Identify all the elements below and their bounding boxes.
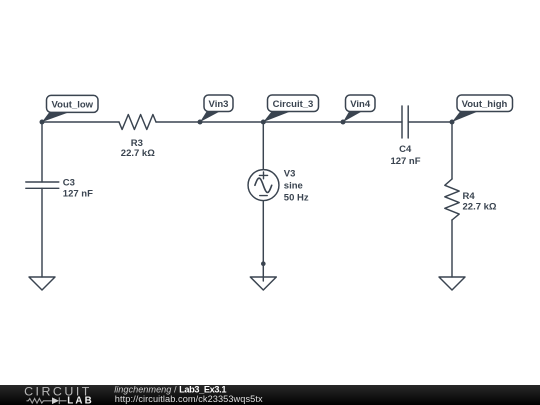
wire C3 to left ground	[41, 188, 43, 277]
capacitor C4	[402, 106, 408, 138]
V3 minus sign	[260, 195, 267, 197]
capacitor C3	[26, 182, 59, 188]
wire R3 to C4 (through Vin3, Circuit_3, Vin4 nodes)	[156, 121, 402, 123]
svg-text:22.7 kΩ: 22.7 kΩ	[121, 148, 155, 159]
svg-text:127 nF: 127 nF	[63, 189, 93, 200]
voltage source V3	[248, 170, 279, 201]
CircuitLab logo: resistor zigzag + diode row	[27, 397, 67, 404]
node label box Circuit_3	[268, 95, 319, 112]
node Vout_low (junction dot)	[40, 120, 45, 125]
svg-text:http://circuitlab.com/ck23353w: http://circuitlab.com/ck23353wqs5tx	[115, 394, 263, 404]
svg-text:C3: C3	[63, 177, 75, 188]
wire V3 to middle ground	[262, 201, 264, 281]
V3 sine wave	[255, 178, 272, 192]
wire Circuit_3 node down to V3	[262, 122, 264, 170]
junction dot above middle ground	[261, 261, 266, 266]
label tail Vin3	[200, 112, 220, 122]
footer bar	[0, 385, 540, 405]
svg-text:sine: sine	[284, 181, 303, 192]
resistor R3	[119, 115, 156, 130]
svg-text:22.7 kΩ: 22.7 kΩ	[463, 201, 497, 212]
label tail Vin4	[343, 112, 362, 122]
label tail Vout_high	[452, 112, 478, 122]
node label box Vin3	[204, 95, 233, 112]
svg-text:Vout_low: Vout_low	[52, 100, 94, 111]
wire top left (Vout_low node to R3)	[42, 121, 119, 123]
wire Vout_high node down to R4	[451, 122, 453, 179]
ground (left)	[29, 277, 55, 290]
wire R4 to right ground	[451, 220, 453, 277]
svg-text:Vin4: Vin4	[350, 99, 371, 110]
label tail Vout_low	[42, 113, 68, 122]
node label box Vout_high	[457, 95, 513, 112]
svg-text:50 Hz: 50 Hz	[284, 192, 309, 203]
node label box Vout_low	[47, 95, 99, 112]
node Vout_high (junction dot)	[450, 120, 455, 125]
svg-text:Vout_high: Vout_high	[462, 99, 508, 110]
node Vin3 (junction dot)	[198, 120, 203, 125]
resistor R4	[445, 179, 459, 220]
ground (middle)	[250, 277, 276, 290]
svg-text:V3: V3	[284, 169, 296, 180]
wire C4 to Vout_high node	[408, 121, 452, 123]
svg-text:Circuit_3: Circuit_3	[273, 99, 314, 110]
CircuitLab logo: diode triangle	[52, 397, 59, 404]
node label box Vin4	[346, 95, 376, 112]
node Circuit_3 (junction dot)	[261, 120, 266, 125]
node Vin4 (junction dot)	[341, 120, 346, 125]
V3 plus sign	[259, 172, 267, 179]
svg-text:R4: R4	[463, 191, 476, 202]
svg-text:LAB: LAB	[67, 396, 94, 405]
svg-text:Vin3: Vin3	[209, 99, 229, 110]
label tail Circuit_3	[263, 112, 290, 122]
svg-text:C4: C4	[399, 144, 412, 155]
wire left vertical (node to C3)	[41, 122, 43, 182]
svg-text:127 nF: 127 nF	[390, 156, 420, 167]
svg-text:lingchenmeng / Lab3_Ex3.1: lingchenmeng / Lab3_Ex3.1	[114, 384, 226, 394]
ground (right)	[439, 277, 465, 290]
